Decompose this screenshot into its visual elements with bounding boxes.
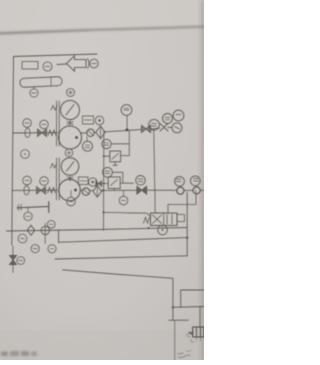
PI circle <box>18 234 27 243</box>
drawing border left <box>12 57 14 246</box>
tag circle 1b <box>40 120 49 129</box>
coupling arrow symbol <box>57 63 67 66</box>
outlet diamond B <box>193 187 200 194</box>
DCV bottom circle <box>161 226 163 228</box>
tag box 1 <box>83 116 94 124</box>
pipe 2 tag circle <box>24 212 32 220</box>
L1 cross fitting <box>41 226 49 234</box>
relief 1 pilot loop <box>111 144 129 156</box>
motor spring 1 <box>51 106 57 111</box>
motor 1 <box>61 101 80 120</box>
pump 1 <box>59 126 82 149</box>
DCV feed line <box>104 212 151 216</box>
flex coupling 2 <box>24 186 29 195</box>
tag circle 2b <box>40 177 49 186</box>
header pipe 2 <box>17 206 49 207</box>
flex coupling 1 <box>25 128 30 137</box>
junction dot train2/x103 <box>102 189 104 191</box>
top page edge line <box>0 27 206 34</box>
DCV spring <box>144 217 150 223</box>
tag circle e <box>48 245 56 253</box>
relief 1 box <box>110 151 121 162</box>
mini bowtie on inlet <box>96 181 102 187</box>
drop to valve block <box>199 307 201 327</box>
outlet diamond A circle <box>175 176 185 186</box>
header L4 <box>63 270 173 279</box>
riser pair 2 <box>56 158 58 200</box>
suction line 2 <box>12 189 57 191</box>
ball check 1 <box>87 129 94 136</box>
branch rect top <box>181 290 204 307</box>
tag circle 1a <box>23 119 32 128</box>
relief 2 box <box>108 177 120 189</box>
header L3 <box>55 256 187 259</box>
tag circle d <box>31 245 39 253</box>
L1 diamond <box>27 225 35 235</box>
paper background <box>0 0 204 360</box>
drop line to DCV <box>154 130 155 190</box>
gauge under line 1 <box>83 141 93 151</box>
L4 drop riser <box>172 278 174 320</box>
discharge line 1 <box>82 132 87 134</box>
relief 2 stem <box>113 189 115 191</box>
suction valve 1 <box>38 129 47 137</box>
accumulator pill 1 <box>20 77 62 88</box>
legend rectangle <box>22 62 38 70</box>
faint caption smudge bottom left <box>1 351 37 356</box>
outlet diamond A <box>177 187 184 194</box>
valve block <box>193 327 204 337</box>
relief 1 circle <box>102 139 111 148</box>
left drain valve <box>10 256 17 265</box>
outlet diamond B circle <box>190 176 200 186</box>
motor 1 tag circle <box>67 89 75 97</box>
ball check 2 <box>82 188 89 195</box>
suction line 1 <box>13 132 58 134</box>
strainer 2 <box>48 188 56 194</box>
valve X 1 <box>160 124 168 132</box>
relief 2 inlet <box>96 183 108 185</box>
suction valve 2 <box>37 187 46 194</box>
drain valve tag <box>17 257 25 265</box>
drain vertical x103 <box>103 131 105 230</box>
DCV solenoid <box>177 215 185 222</box>
motor 2 tag circle <box>65 149 73 157</box>
L1-L2 link <box>58 230 60 243</box>
valve 2 tag circle <box>136 176 146 186</box>
TI stem / relief branch 1 <box>126 115 128 130</box>
branch h320 <box>169 319 189 321</box>
motor spring 2 <box>51 164 57 169</box>
tag box 2 <box>79 177 89 185</box>
lone tag circle left <box>21 150 30 159</box>
cluster circle c <box>172 123 182 133</box>
drawing border top <box>14 54 98 57</box>
pill 1 tag circle <box>30 89 38 97</box>
relief 1 inlet <box>104 155 110 157</box>
relief 1 drain stem <box>113 162 117 166</box>
TI circle 1 <box>121 105 132 116</box>
right riser v2 <box>186 193 188 256</box>
DCV body <box>151 213 178 226</box>
tail vertical <box>174 320 176 360</box>
faint marks under valve <box>197 337 201 341</box>
legend circle <box>43 62 52 71</box>
discharge valve 1 <box>142 125 151 132</box>
header line L1 <box>7 228 188 232</box>
header L2 <box>59 238 188 243</box>
strainer 1 <box>48 130 56 136</box>
relief 2 pilot loop <box>112 172 122 183</box>
right edge shading <box>199 0 204 360</box>
gauge on line 1 <box>149 119 160 130</box>
check diamond 1 <box>96 126 105 139</box>
relief 2 outlet line <box>123 182 134 184</box>
tag circle 2a <box>23 176 32 185</box>
motor 2 <box>61 158 79 176</box>
discharge valve 2 <box>137 186 147 194</box>
check diamond 2 <box>93 186 102 198</box>
tag circle 1c <box>95 116 104 125</box>
cluster circle b <box>173 110 184 121</box>
cross tag circle <box>47 220 55 228</box>
shaft coupling 2 <box>67 175 73 181</box>
DCV top port right jog <box>168 191 196 214</box>
junction dot A1 <box>126 128 129 131</box>
cluster circle a <box>163 114 173 124</box>
relief 2 circle <box>103 167 113 177</box>
tag circle 2c <box>89 178 97 186</box>
valve arrow left <box>189 331 193 335</box>
riser pair 1 <box>56 101 58 146</box>
branch h307 <box>173 306 204 309</box>
shaft coupling 1 <box>67 120 73 127</box>
discharge line 2 <box>80 189 82 191</box>
coupling circle <box>90 59 99 68</box>
pump 2 <box>59 179 81 201</box>
gauge circles under line 2 <box>70 191 72 198</box>
